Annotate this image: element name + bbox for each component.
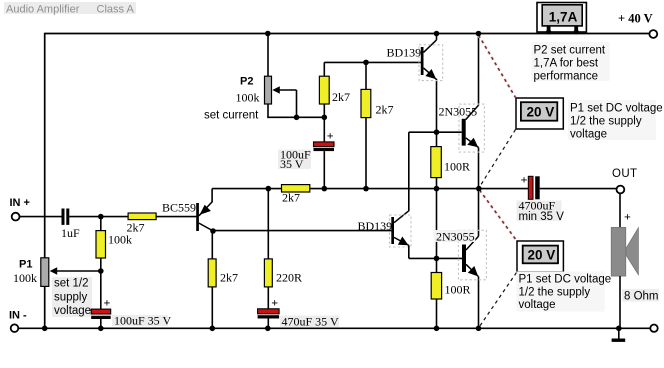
transistor Q2 BD139 upper [421,34,437,133]
svg-text:BD139: BD139 [387,46,422,60]
transistor Q4 BD139 lower [391,211,409,246]
value 4700uF min 35 V [517,199,565,224]
P1 wiper arrow [50,267,101,275]
potentiometer P2 [265,76,272,104]
svg-text:2k7: 2k7 [282,191,300,205]
P2 wiper arrow [272,86,296,117]
wire 100R to output line [436,178,438,189]
dashed link rail to voltmeter upper (red) [479,35,516,98]
wire 220R to 470uF [267,287,269,309]
wire output mid line [212,188,616,190]
resistor 2k7 input series [128,213,156,220]
junction P2 wiper [294,115,300,121]
junction mid output [476,186,482,192]
svg-text:35 V: 35 V [280,157,304,171]
wire 100R lower to ground [436,299,438,328]
capacitor 470uF 35V [258,309,280,319]
ground symbol [612,328,626,342]
svg-text:IN -: IN - [9,310,27,322]
label set 1/2 supply voltage [52,277,92,317]
label 8 Ohm [622,289,659,303]
svg-text:100k: 100k [108,233,132,247]
junction mid 100R [434,186,440,192]
voltmeter 20V upper [516,98,563,129]
junction P2 bottom [322,115,328,121]
svg-text:1,7A for best: 1,7A for best [534,58,599,70]
junction ground 470uF [265,326,271,332]
junction ground 2N3055 [476,326,482,332]
svg-text:100k: 100k [236,91,260,105]
svg-text:220R: 220R [276,271,302,285]
dashed outline 2N3055 lower [458,230,486,279]
svg-text:BC559: BC559 [162,201,196,215]
terminal +40V [649,30,657,38]
junction ground 100R [434,326,440,332]
wire node to 100R lower [436,258,438,272]
wire 2k7 to ground [211,287,213,328]
resistor 100k [96,231,106,258]
junction P1 wiper [98,268,104,274]
wire BD139 lower collector up [409,132,437,211]
value 100uF 35 V [112,314,171,328]
svg-text:100uF 35 V: 100uF 35 V [114,314,171,328]
svg-text:2k7: 2k7 [220,271,238,285]
dashed outline BD139 upper [419,45,443,81]
note P1 set DC voltage lower [517,272,612,312]
junction top rail P2 [265,31,271,37]
capacitor 100uF 35V upper [314,142,335,151]
dashed link voltmeter lower to ground (black) [480,273,517,327]
svg-text:+: + [104,296,111,310]
svg-text:P1 set DC voltage: P1 set DC voltage [519,274,612,286]
wire speaker to ground rail [619,276,621,328]
terminal OUT [617,186,625,194]
resistor 220R [264,259,272,287]
junction top rail BD139 [434,31,440,37]
wire BD139 lower emitter to node [409,245,462,258]
svg-text:1,7A: 1,7A [549,9,578,24]
note P1 set DC voltage upper [568,100,663,141]
dashed link out to voltmeter lower (red) [480,190,517,241]
value 470uF 35 V [280,315,339,329]
speaker 8 Ohm [611,227,638,276]
dashed link voltmeter upper to out (black) [480,130,516,188]
junction 2k7 branch [363,60,369,66]
svg-text:20 V: 20 V [528,248,556,263]
wire 100k bias branch [100,217,102,329]
potentiometer P1 [41,258,49,287]
terminal IN- [11,324,19,332]
ammeter 1,7A [537,3,586,35]
svg-text:P1 set DC voltage: P1 set DC voltage [570,103,663,115]
svg-text:voltage: voltage [519,299,556,311]
dashed outline BD139 lower [390,215,412,247]
resistor 100R lower [431,273,441,300]
wire top +40V rail [45,33,650,35]
label 2N3055 [434,230,476,244]
junction mid 100uF [322,186,328,192]
junction mid 2k7 [363,186,369,192]
svg-text:P1: P1 [19,259,32,271]
transistor Q5 2N3055 lower [462,189,479,329]
svg-text:BD139: BD139 [358,219,393,233]
svg-text:P2: P2 [240,76,253,88]
dashed outline 2N3055 upper [459,104,484,152]
svg-text:performance: performance [534,71,599,83]
svg-text:set current: set current [204,110,259,122]
junction ground speaker [616,326,622,332]
svg-text:OUT: OUT [612,168,637,180]
wire 220R branch [267,189,269,259]
wire bottom ground rail [18,327,650,329]
capacitor 4700uF output [528,176,539,199]
svg-text:P2 set current: P2 set current [534,45,606,57]
transistor Q1 BC559 [196,189,212,231]
resistor 2k7 (second vertical) [361,89,371,117]
svg-text:+: + [521,173,528,187]
svg-text:min 35 V: min 35 V [519,211,565,223]
junction top rail 2N3055 [476,31,482,37]
wire input line [19,216,196,218]
wire 470uF to ground [267,319,269,329]
svg-text:+: + [327,129,334,143]
junction input node [98,214,104,220]
svg-text:voltage: voltage [570,129,607,141]
junction driver node upper [434,129,440,135]
note P2 set current [532,42,610,83]
resistor 2k7 (mid horizontal) [282,185,310,192]
wire output node down to lower driver node [436,189,438,259]
wire BC559 collector down [211,231,213,259]
svg-text:Audio Amplifier: Audio Amplifier [6,4,80,16]
svg-text:1/2 the supply: 1/2 the supply [519,287,591,299]
capacitor 1uF input [62,209,70,225]
svg-text:+ 40 V: + 40 V [618,12,653,26]
svg-text:1uF: 1uF [61,226,80,240]
title text [4,2,136,16]
junction BC559 collector [210,228,216,234]
wire 2k7 upper branch [324,62,421,188]
svg-text:IN +: IN + [10,197,30,209]
wire 2k7 second branch [365,62,367,188]
svg-text:+: + [271,296,278,310]
svg-text:+: + [624,210,631,224]
resistor 100R upper [431,147,442,178]
svg-text:2k7: 2k7 [332,90,350,104]
junction ground 2k7 [210,326,216,332]
svg-text:1/2 the supply: 1/2 the supply [570,116,642,128]
wire OUT to speaker [619,194,621,228]
svg-text:100R: 100R [444,160,470,174]
svg-text:470uF 35 V: 470uF 35 V [282,315,339,329]
svg-text:set 1/2: set 1/2 [54,278,89,290]
value 100uF 35 V [278,148,311,172]
resistor 2k7 (collector load) [208,259,216,287]
junction driver node lower [434,256,440,262]
voltmeter 20V lower [517,241,563,272]
svg-text:2N3055: 2N3055 [436,230,475,244]
svg-text:8 Ohm: 8 Ohm [624,291,659,303]
terminal bottom right [650,325,657,332]
wire node to 2N3055 base [437,131,462,133]
wire left rail lower [44,286,46,328]
svg-text:100R: 100R [445,283,471,297]
svg-text:Class A: Class A [97,4,135,16]
svg-text:20 V: 20 V [527,105,555,120]
resistor 2k7 (VAS load upper) [319,76,329,104]
junction ground left [42,326,48,332]
junction ground 100uF [98,326,104,332]
wire left rail upper [44,33,46,258]
transistor Q3 2N3055 upper [462,34,479,189]
wire node to 100R [436,132,438,146]
svg-text:2N3055: 2N3055 [439,105,478,119]
svg-text:supply: supply [54,292,87,304]
svg-text:100k: 100k [13,271,37,285]
svg-text:voltage: voltage [54,305,91,317]
terminal IN+ [12,213,20,221]
wire BC559 collector to driver base [213,230,391,232]
junction mid 220R [266,186,272,192]
svg-text:2k7: 2k7 [376,103,394,117]
capacitor 100uF 35V lower [91,309,111,319]
wire P2 branch from rail [267,34,324,118]
